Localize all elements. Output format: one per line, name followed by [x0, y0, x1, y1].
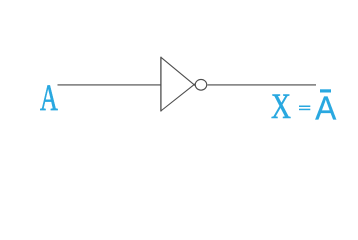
inverter U1 triangle bottom edge [161, 83, 196, 111]
wire input from A to inverter [58, 84, 161, 86]
macron bar over A [320, 89, 331, 92]
svg-text:X: X [271, 87, 291, 126]
svg-text:A: A [315, 88, 336, 126]
equals sign top bar [299, 106, 310, 108]
svg-text:A: A [40, 77, 58, 118]
wire output from bubble to X label [207, 84, 316, 86]
inverter U1 output bubble [195, 79, 207, 90]
inverter U1 triangle left edge [160, 57, 162, 112]
equals sign bottom bar [299, 109, 310, 111]
inverter U1 triangle top edge [161, 57, 196, 86]
